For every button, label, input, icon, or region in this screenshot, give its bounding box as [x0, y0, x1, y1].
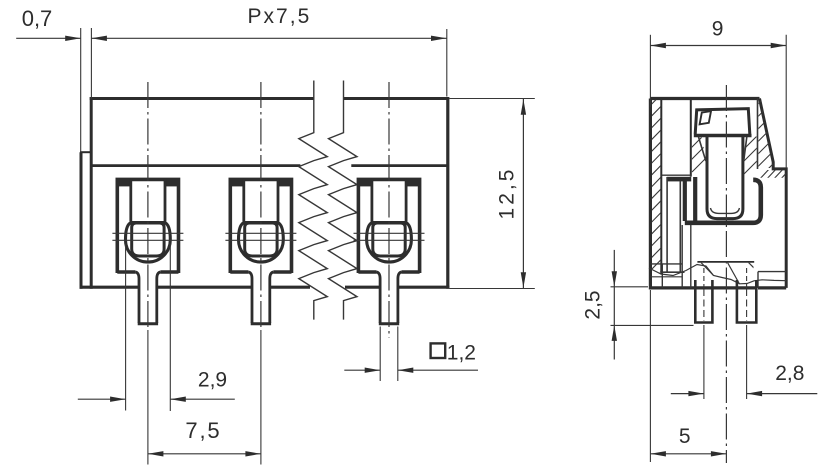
svg-text:2,5: 2,5: [582, 290, 605, 319]
terminal 1 contact slot: [112, 178, 183, 324]
svg-text:9: 9: [712, 18, 724, 41]
terminal 2 centerline: [260, 82, 262, 465]
right ledge lines: [758, 272, 786, 288]
front view body right edge: [446, 97, 449, 289]
dimension 12,5 extension lines: [449, 99, 534, 289]
dimension 2,9 label: [198, 369, 227, 392]
dimension 5 extension line: [649, 290, 651, 462]
left wall bottom boundary: [650, 264, 682, 288]
side view outer outline: [650, 99, 786, 288]
dimension 2,5 extension lines: [611, 287, 694, 326]
side pin rear centerline: [746, 289, 748, 399]
svg-text:5: 5: [679, 425, 691, 448]
svg-text:12,5: 12,5: [496, 167, 519, 220]
terminal 2 contact slot: [225, 178, 296, 324]
screw shank: [707, 136, 743, 219]
dimension square 1,2 extension lines: [380, 327, 398, 382]
break line right: [329, 81, 358, 320]
dimension 2,8 label: [775, 362, 804, 385]
side view left wall inner line: [660, 99, 662, 275]
dimension 9 line: [650, 43, 786, 48]
funnel left hatching: [691, 133, 707, 172]
dimension Px7,5 label: [248, 5, 312, 28]
svg-text:0,7: 0,7: [22, 6, 53, 31]
dimension 2,5 line: [612, 250, 617, 360]
front view body left step: [80, 151, 91, 153]
side view cavity right wall: [757, 99, 759, 170]
dimension square 1,2 line: [344, 368, 478, 373]
dimension 2,8 line: [671, 391, 818, 396]
side pin front centerline: [703, 289, 705, 399]
break line left: [299, 81, 328, 320]
screw funnel right slant: [744, 137, 747, 161]
screw funnel left slant: [699, 137, 706, 161]
svg-text:2,8: 2,8: [775, 362, 804, 385]
wire cavity right wall: [679, 181, 681, 273]
side view centerline: [725, 85, 727, 463]
clamp cage ledge bar: [661, 175, 691, 181]
dimension 9 extension lines: [650, 35, 786, 168]
screw head: [694, 109, 752, 136]
svg-text:1,2: 1,2: [447, 341, 476, 364]
right ledge hatching: [757, 167, 792, 182]
dimension 0,7 label: [22, 6, 53, 31]
dimension Px7,5 extension line: [446, 29, 448, 97]
terminal 3 contact slot: [354, 178, 425, 324]
dimension 5 label: [679, 425, 691, 448]
dimension 9 label: [712, 18, 724, 41]
side pin rear: [737, 280, 756, 323]
dimension 12,5 line: [521, 99, 526, 289]
pin centerline stubs: [704, 268, 747, 288]
dimension square 1,2 label: [431, 341, 476, 364]
svg-text:7,5: 7,5: [185, 418, 221, 443]
front view body left outer edge: [80, 152, 83, 289]
terminal 3 centerline: [388, 82, 390, 338]
cage lower walls: [682, 225, 691, 288]
wire cavity left wall: [666, 177, 668, 273]
dimension 0,7 extension lines: [81, 28, 92, 152]
bottom breakout wavy line: [649, 265, 786, 284]
left wall section hatching: [650, 94, 662, 283]
dimension 2,5 label: [582, 290, 605, 319]
dimension 12,5 label: [496, 167, 519, 220]
dimension 2,9 extension lines: [126, 244, 171, 412]
side view cavity left wall: [690, 99, 692, 177]
svg-text:2,9: 2,9: [198, 369, 227, 392]
side pin front: [695, 280, 712, 323]
dimension 5 line: [650, 451, 726, 456]
dimension 0,7 line: [16, 36, 81, 41]
terminal 1 centerline: [147, 82, 149, 465]
bottom section hatching: [701, 263, 758, 285]
dimension 7,5 label: [185, 418, 221, 443]
wire cavity bottom: [661, 271, 684, 273]
clamp cage bottom and right: [685, 180, 761, 223]
dimension Px7,5 line: [91, 36, 446, 41]
dimension 7,5 line: [148, 451, 261, 456]
front view body left inner edge: [90, 97, 93, 289]
dimension 2,9 line: [78, 397, 235, 402]
funnel right hatching: [743, 135, 759, 174]
screw chamber floor: [697, 261, 754, 263]
clamp cage left walls: [685, 177, 695, 221]
right wedge section hatching: [752, 78, 784, 185]
screw head slot mark: [700, 111, 711, 124]
front view body bottom edge: [80, 286, 450, 289]
front view body top edge: [90, 97, 448, 100]
front view body mid line: [91, 164, 448, 167]
svg-text:Px7,5: Px7,5: [248, 5, 312, 28]
